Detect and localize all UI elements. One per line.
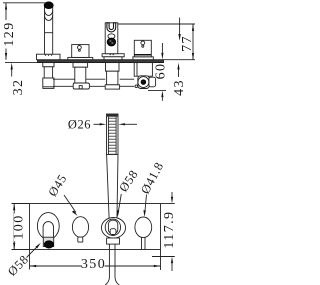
dim diameter 26 left arrow bbox=[94, 123, 103, 125]
dim 350 extension lines bbox=[29, 250, 31, 270]
handshower holder column (top view) bbox=[102, 54, 124, 57]
dim 77 line bbox=[192, 24, 194, 60]
dim 100 text bbox=[14, 214, 25, 242]
extension line at holder top bbox=[118, 23, 195, 25]
leader line with down arrow (x179.6) bbox=[179, 18, 181, 35]
svg-text:77: 77 bbox=[180, 35, 195, 52]
mixer knob circle front view bbox=[135, 217, 152, 238]
dim 129 text bbox=[1, 20, 13, 49]
holder fork bbox=[107, 23, 116, 32]
wall bar top view bbox=[38, 60, 164, 63]
leader diameter 41.8 bbox=[145, 195, 147, 213]
handshower handle in cradle bbox=[108, 220, 117, 234]
dim 117.9 line arrows (outside) bbox=[171, 192, 173, 197]
holder flange screws bbox=[110, 54, 111, 55]
valve body under holder bbox=[106, 63, 120, 72]
spout flange screws bbox=[45, 55, 46, 56]
extension line at bar top right bbox=[164, 59, 196, 61]
svg-text:117.9: 117.9 bbox=[162, 211, 177, 249]
spout outlet (black) bbox=[44, 241, 53, 248]
manifold pipe segments bbox=[53, 78, 76, 80]
spout pipe joint line bbox=[45, 32, 53, 34]
spout pipe (top view) bbox=[45, 7, 53, 54]
spout escutcheon circle bbox=[37, 213, 59, 240]
spout cap (black) bbox=[44, 2, 53, 9]
valve body right (hose outlet) bbox=[134, 63, 152, 77]
dim 60 bottom extension line bbox=[148, 89, 166, 91]
svg-text:100: 100 bbox=[11, 214, 26, 239]
holder shower dot (black) bbox=[107, 38, 115, 46]
leader diameter 58 spout bbox=[27, 246, 38, 258]
dim 60 bottom arrow bbox=[161, 91, 163, 98]
dim 60 top arrow bbox=[161, 43, 163, 53]
spout neck ring arcs bbox=[45, 11, 53, 16]
handshower wand bbox=[107, 155, 118, 221]
dim 350 line bbox=[30, 265, 83, 267]
dim 43 arrow bbox=[177, 63, 179, 70]
cradle stem bbox=[107, 238, 120, 244]
valve body under diverter knob bbox=[73, 63, 88, 68]
cradle inner ring bbox=[105, 219, 120, 235]
diverter knob circle bbox=[72, 217, 88, 238]
dim 32 arrow bbox=[11, 63, 13, 70]
holder head ellipse bbox=[108, 34, 115, 39]
dim diameter 26 right arrow bbox=[123, 123, 137, 125]
dim 117.9 extension lines bbox=[161, 203, 175, 205]
leader diameter 58 bbox=[118, 194, 121, 212]
svg-text:32: 32 bbox=[11, 79, 26, 96]
svg-text:Ø26: Ø26 bbox=[68, 118, 91, 132]
wall plate front view bbox=[30, 204, 161, 250]
dim 129 extension line bbox=[3, 2, 46, 4]
dim 32 extension line bbox=[5, 62, 38, 64]
dim 100 line bbox=[13, 204, 15, 250]
spout nose bbox=[43, 222, 53, 238]
svg-text:43: 43 bbox=[172, 79, 187, 96]
diverter tab bbox=[78, 237, 83, 242]
dim 100 extension lines bbox=[12, 203, 30, 205]
svg-text:60: 60 bbox=[153, 63, 168, 80]
valve body under spout bbox=[43, 63, 54, 67]
svg-text:129: 129 bbox=[2, 21, 17, 46]
mixer knob (top view right) bbox=[133, 57, 153, 60]
handshower cradle outer circle bbox=[101, 218, 125, 239]
dim 129 line bbox=[5, 3, 7, 60]
svg-text:350: 350 bbox=[81, 257, 106, 272]
shower hose bbox=[105, 244, 109, 285]
spout flange (top view) bbox=[37, 54, 61, 60]
leader diameter 45 bbox=[64, 195, 76, 213]
wand head bbox=[107, 114, 119, 155]
diverter knob (top view) bbox=[68, 57, 93, 59]
knob stem bbox=[141, 238, 143, 250]
